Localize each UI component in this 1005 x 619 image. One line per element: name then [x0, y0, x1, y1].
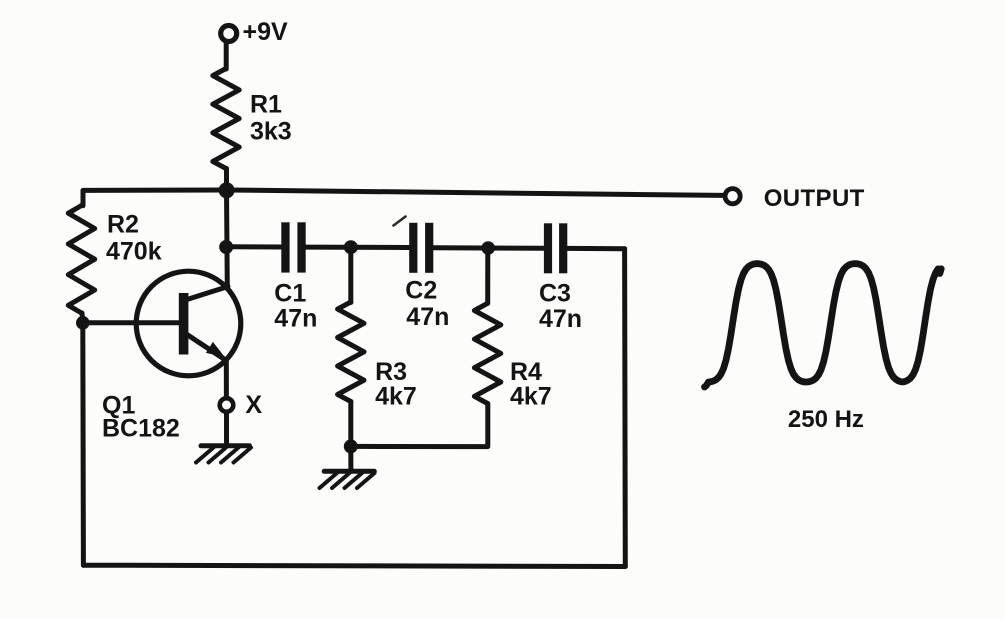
terminal X	[220, 398, 234, 412]
wire	[80, 313, 86, 323]
svg-text:C1: C1	[274, 280, 306, 308]
svg-text:OUTPUT: OUTPUT	[764, 185, 865, 212]
wire cap row	[226, 244, 281, 249]
node base junction	[76, 316, 90, 330]
capacitor C2	[409, 223, 433, 273]
svg-text:BC182: BC182	[102, 415, 180, 443]
svg-text:47n: 47n	[406, 303, 449, 331]
node R1 junction	[219, 182, 235, 198]
node collector junction	[219, 240, 233, 254]
svg-text:4k7: 4k7	[375, 383, 417, 411]
capacitor C3	[544, 223, 567, 273]
capacitor C1	[281, 222, 305, 272]
node R3 bottom	[344, 439, 358, 453]
svg-text:+9V: +9V	[243, 18, 289, 46]
wire	[83, 190, 227, 206]
stray mark	[394, 217, 406, 226]
svg-text:C2: C2	[405, 277, 437, 305]
sine wave 250 Hz	[705, 264, 942, 387]
transistor Q1	[136, 271, 241, 376]
svg-text:3k3: 3k3	[250, 118, 292, 146]
ground	[196, 446, 251, 463]
resistor R4	[474, 248, 500, 404]
terminal +9V	[221, 26, 237, 42]
wire	[306, 245, 410, 250]
wire feedback left	[80, 323, 86, 565]
svg-text:250 Hz: 250 Hz	[788, 406, 864, 433]
svg-text:4k7: 4k7	[510, 383, 552, 411]
wire	[224, 42, 229, 69]
wire feedback right	[622, 249, 628, 567]
node B	[481, 241, 495, 255]
wire	[224, 169, 229, 192]
svg-text:470k: 470k	[106, 238, 162, 266]
wire emitter	[224, 361, 229, 399]
wire	[433, 245, 544, 250]
terminal OUTPUT	[725, 189, 740, 204]
svg-text:X: X	[245, 391, 262, 419]
wire	[224, 412, 229, 444]
svg-text:R2: R2	[107, 211, 139, 239]
wire	[567, 246, 624, 251]
wire	[224, 190, 230, 289]
svg-text:47n: 47n	[539, 305, 582, 333]
resistor R3	[338, 247, 364, 446]
wire feedback bottom	[83, 565, 625, 566]
wire	[227, 190, 723, 195]
svg-text:R1: R1	[250, 90, 282, 118]
svg-text:47n: 47n	[274, 305, 317, 333]
resistor R1	[213, 69, 239, 169]
resistor R2	[68, 206, 94, 314]
ground	[320, 446, 375, 488]
wire	[83, 320, 180, 325]
svg-text:C3: C3	[539, 280, 571, 308]
node A	[344, 240, 358, 254]
wire	[351, 404, 488, 447]
